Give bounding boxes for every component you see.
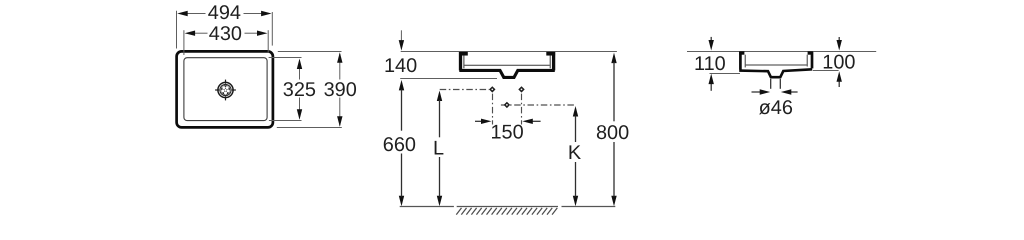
svg-text:325: 325 — [283, 79, 316, 101]
svg-text:140: 140 — [384, 55, 417, 77]
svg-text:150: 150 — [491, 121, 524, 143]
svg-text:494: 494 — [208, 2, 241, 24]
svg-text:660: 660 — [383, 134, 416, 156]
svg-text:K: K — [568, 142, 582, 164]
svg-text:430: 430 — [209, 23, 242, 45]
svg-text:800: 800 — [596, 122, 629, 144]
svg-text:390: 390 — [324, 79, 357, 101]
svg-text:110: 110 — [694, 53, 726, 75]
svg-text:L: L — [433, 137, 444, 159]
svg-text:100: 100 — [822, 52, 855, 74]
svg-text:ø46: ø46 — [759, 97, 793, 119]
